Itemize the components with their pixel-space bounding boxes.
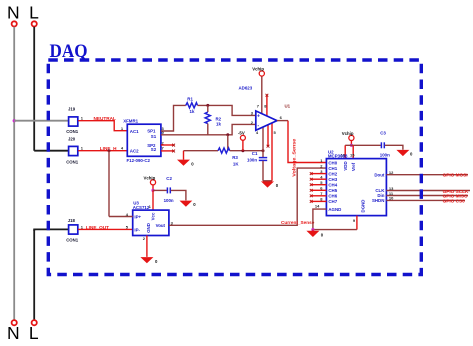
wire CH2 stub — [311, 173, 326, 175]
wire NEUTRAL J19 to AC1 — [78, 121, 127, 131]
svg-text:1K: 1K — [233, 161, 239, 166]
svg-text:CON1: CON1 — [66, 238, 79, 243]
wire CH7 stub — [311, 200, 326, 202]
svg-text:100n: 100n — [380, 153, 390, 158]
wire L rail bottom segment — [33, 229, 35, 319]
wire C2 to ground — [171, 190, 186, 200]
svg-text:N: N — [7, 323, 20, 343]
svg-text:GPIO MOSI: GPIO MOSI — [443, 173, 468, 178]
wire C3 to ground — [385, 145, 403, 150]
wire S1 to op-amp pin2 — [161, 124, 256, 134]
svg-text:Voltage_Sense: Voltage_Sense — [292, 138, 297, 176]
node -5V junction — [241, 149, 244, 152]
svg-text:LINE_OUT: LINE_OUT — [86, 225, 109, 230]
op-amp pin 1 stub — [267, 125, 269, 146]
svg-text:J18: J18 — [68, 218, 76, 223]
DAQ dashed boundary — [48, 60, 421, 275]
node AGND junction — [311, 228, 314, 231]
wire Voltage_Sense to CH0 — [288, 121, 326, 163]
node Vchip-C2 junction — [151, 189, 154, 192]
svg-text:Vcc: Vcc — [151, 212, 156, 220]
ground under U3 — [140, 257, 158, 264]
capacitor C3 — [380, 130, 390, 157]
wire LINE_H down to IP+ — [108, 151, 110, 217]
svg-text:CON1: CON1 — [66, 159, 79, 164]
no-connect CH3 — [310, 178, 313, 181]
connector J19 — [66, 106, 79, 134]
svg-text:CH1: CH1 — [328, 166, 337, 171]
no-connect pin 1 — [267, 145, 270, 148]
svg-text:AD623: AD623 — [239, 85, 253, 90]
wire CH4 stub — [311, 184, 326, 186]
power -5V — [238, 131, 245, 151]
wire LINE_OUT J18 to IP- — [78, 228, 133, 230]
svg-text:1k: 1k — [216, 121, 221, 126]
wire R1 to op-amp pin3 — [198, 105, 256, 115]
svg-text:GPIO CS0: GPIO CS0 — [443, 199, 466, 204]
transformer XFMR1 — [123, 118, 161, 163]
wire to C2 — [153, 189, 167, 191]
node Vchip-C3 junction — [350, 144, 353, 147]
capacitor C2 — [164, 176, 174, 203]
svg-text:L: L — [29, 2, 39, 22]
ground right of C3 — [396, 150, 413, 157]
wire Vchip to U3 Vcc — [152, 185, 154, 191]
op-amp U1 supply pin 7 — [261, 76, 263, 114]
IC U2 MCP3008 — [326, 149, 386, 215]
svg-text:NEUTRAL: NEUTRAL — [94, 116, 117, 121]
no-connect CH4 — [310, 183, 313, 186]
svg-text:F12-090-C2: F12-090-C2 — [127, 158, 151, 163]
svg-text:DAQ: DAQ — [50, 42, 88, 62]
wire AGND pin 14 — [313, 209, 327, 230]
wire op-amp output — [277, 120, 288, 122]
wire CH6 stub — [311, 195, 326, 197]
IC U3 ACS712 — [133, 201, 169, 236]
power Vchip op-amp — [252, 67, 264, 77]
svg-text:CON1: CON1 — [66, 129, 79, 134]
svg-text:C1: C1 — [252, 151, 258, 156]
svg-text:VDD: VDD — [343, 161, 348, 170]
svg-text:IP-: IP- — [134, 227, 140, 232]
ground under U2 — [306, 230, 323, 238]
node S1 wire junction — [226, 133, 229, 136]
svg-text:AC2: AC2 — [130, 148, 139, 153]
svg-text:Vchip: Vchip — [252, 67, 264, 72]
wire supply row to C3 — [345, 144, 381, 146]
terminal N bottom — [12, 320, 17, 325]
svg-text:C3: C3 — [380, 130, 386, 135]
svg-text:CH7: CH7 — [328, 199, 337, 204]
svg-text:U1: U1 — [285, 103, 291, 108]
svg-text:Vref: Vref — [351, 162, 356, 171]
svg-text:DGND: DGND — [361, 200, 366, 213]
wire VDD pin 16 — [344, 145, 346, 158]
power Vchip U3 — [144, 175, 156, 185]
wire S2 stub — [161, 150, 174, 152]
svg-text:S1: S1 — [151, 134, 157, 139]
svg-text:-5V: -5V — [238, 131, 245, 136]
svg-text:MCP3008: MCP3008 — [328, 154, 348, 159]
svg-text:ACS712: ACS712 — [133, 205, 150, 210]
svg-text:GND: GND — [146, 223, 151, 233]
no-connect CH2 — [310, 172, 313, 175]
wire Din pin 11 — [386, 195, 468, 197]
svg-text:CH0: CH0 — [328, 160, 337, 165]
ground under C2 — [180, 201, 197, 208]
wire CH5 stub — [311, 189, 326, 191]
svg-text:100n: 100n — [164, 198, 174, 203]
svg-text:Vchip: Vchip — [144, 175, 156, 180]
op-amp pin 5 lead — [271, 123, 273, 181]
wire U3 GND pin 2 — [146, 236, 148, 257]
wire C1 to pin5 — [263, 180, 272, 182]
op-amp pin 8 stub — [266, 96, 268, 117]
capacitor C1 — [247, 151, 267, 181]
wire CLK pin 13 — [386, 190, 470, 192]
op-amp U1 AD623 — [239, 85, 291, 130]
svg-text:15: 15 — [350, 152, 355, 157]
wire SP1 up to R1 row — [161, 105, 186, 131]
svg-text:AC1: AC1 — [130, 129, 139, 134]
svg-text:SP1: SP1 — [147, 128, 156, 133]
wire IP+ pin — [109, 216, 133, 218]
svg-text:S2: S2 — [151, 147, 157, 152]
wire DGND to AGND — [313, 229, 357, 231]
svg-text:Vchip: Vchip — [342, 131, 354, 136]
svg-text:CH5: CH5 — [328, 188, 337, 193]
resistor R1 — [186, 96, 198, 114]
svg-text:-: - — [257, 123, 259, 129]
terminal N top — [12, 21, 17, 26]
no-connect CH7 — [310, 200, 313, 203]
svg-text:CH6: CH6 — [328, 194, 337, 199]
svg-text:+: + — [257, 114, 260, 120]
ground under R3 row — [177, 151, 194, 167]
no-connect pin 8 — [266, 94, 269, 97]
svg-text:12: 12 — [389, 170, 394, 175]
wire Dout pin 12 — [386, 174, 468, 176]
wire N rail — [13, 27, 15, 320]
wire Vcc pin U3 — [152, 190, 154, 210]
op-amp pin 4 lead — [262, 127, 264, 151]
node LINE_H branch — [108, 149, 111, 152]
svg-text:Vout: Vout — [156, 223, 166, 228]
svg-text:R1: R1 — [187, 96, 193, 101]
connector J20 — [66, 137, 79, 165]
node R1-R2 junction — [206, 104, 209, 107]
ground under C1 — [261, 181, 279, 188]
wire Vchip stub U2 — [350, 141, 352, 146]
node pin4-C1 junction — [262, 149, 265, 152]
pin labels CH0-CH7 — [320, 158, 323, 202]
wire Vref pin 15 — [352, 145, 354, 158]
svg-text:N: N — [7, 2, 20, 22]
svg-text:J19: J19 — [68, 106, 76, 111]
terminal L bottom — [32, 320, 37, 325]
svg-text:1k: 1k — [190, 109, 195, 114]
no-connect SP2 — [172, 144, 175, 147]
no-connect S2 — [172, 150, 175, 153]
svg-text:J20: J20 — [68, 137, 76, 142]
power Vchip U2 — [342, 131, 354, 141]
wire ground row E — [184, 150, 219, 152]
wire N to J19 — [14, 120, 68, 122]
wire CH3 stub — [311, 178, 326, 180]
svg-text:10: 10 — [389, 196, 394, 201]
svg-text:CH4: CH4 — [328, 183, 337, 188]
svg-text:L: L — [29, 323, 39, 343]
svg-text:SHDN: SHDN — [372, 198, 384, 203]
svg-text:IP+: IP+ — [134, 214, 141, 219]
svg-text:100n: 100n — [247, 157, 257, 162]
svg-text:CH2: CH2 — [328, 171, 337, 176]
svg-text:R3: R3 — [232, 155, 238, 160]
connector J18 — [66, 218, 79, 243]
wire R3 to pin4 node — [230, 150, 263, 152]
resistor R3 — [218, 148, 239, 166]
wire SHDN pin 10 — [386, 199, 465, 201]
wire Current_Sense Vout to CH1 — [169, 168, 327, 225]
no-connect CH6 — [310, 194, 313, 197]
wire DGND pin 9 — [356, 216, 358, 230]
svg-text:AGND: AGND — [328, 207, 341, 212]
svg-text:Current_Sense: Current_Sense — [281, 220, 315, 225]
wire L rail top segment — [33, 27, 35, 151]
svg-text:XFMR1: XFMR1 — [123, 118, 138, 123]
wire L to J20 — [34, 150, 68, 152]
wire junction down to R3 row — [227, 135, 229, 151]
resistor R2 — [205, 105, 222, 134]
svg-text:C2: C2 — [166, 176, 172, 181]
wire J18 to L bottom — [34, 229, 68, 231]
svg-text:Dout: Dout — [374, 172, 385, 177]
terminal L top — [32, 21, 37, 26]
svg-text:CH3: CH3 — [328, 177, 337, 182]
wire LINE_H J20 to AC2 — [78, 150, 127, 152]
no-connect CH5 — [310, 189, 313, 192]
wire SP2 stub — [161, 144, 174, 146]
svg-text:14: 14 — [315, 204, 320, 209]
node N junction at J19 row — [13, 119, 16, 122]
